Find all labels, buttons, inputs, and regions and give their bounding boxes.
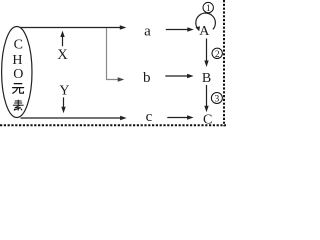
dashed border bottom bbox=[0, 124, 226, 126]
wire: line from ellipse bottom to row-c arrowhead bbox=[21, 117, 121, 119]
svg-text:c: c bbox=[146, 109, 153, 125]
arrow a to A bbox=[166, 29, 188, 31]
svg-text:Y: Y bbox=[59, 84, 69, 99]
hanzi 素 bbox=[13, 100, 24, 111]
self-loop arc on A bbox=[196, 13, 216, 29]
svg-text:2: 2 bbox=[215, 50, 220, 60]
svg-text:1: 1 bbox=[206, 4, 211, 14]
svg-text:C: C bbox=[14, 38, 23, 53]
dashed border right bbox=[223, 0, 225, 126]
svg-text:H: H bbox=[12, 53, 22, 68]
arrow c to C bbox=[167, 117, 188, 119]
wire: branch vertical bbox=[107, 28, 119, 79]
svg-text:3: 3 bbox=[215, 95, 220, 105]
svg-text:B: B bbox=[202, 71, 211, 86]
arrowhead row b branch bbox=[118, 77, 125, 81]
arrowhead row c bbox=[120, 116, 127, 120]
svg-text:A: A bbox=[199, 24, 210, 39]
arrowhead row a bbox=[120, 25, 127, 29]
circled 3 bbox=[211, 93, 222, 104]
svg-text:X: X bbox=[57, 47, 68, 63]
svg-text:b: b bbox=[143, 70, 151, 86]
arrow down Y bbox=[63, 97, 65, 107]
svg-text:a: a bbox=[144, 24, 151, 40]
wire: line from ellipse top to row-a arrowhead bbox=[20, 27, 121, 29]
circled 2 bbox=[212, 48, 222, 58]
ellipse CHO bbox=[2, 27, 32, 118]
hanzi 元 bbox=[13, 84, 24, 94]
circled 1 bbox=[203, 2, 213, 12]
arrow up X bbox=[62, 36, 64, 46]
arrow A to B bbox=[206, 39, 208, 62]
svg-text:O: O bbox=[13, 67, 23, 82]
svg-text:C: C bbox=[203, 113, 212, 128]
arrow b to B bbox=[165, 75, 188, 77]
arrow B to C bbox=[206, 85, 208, 107]
